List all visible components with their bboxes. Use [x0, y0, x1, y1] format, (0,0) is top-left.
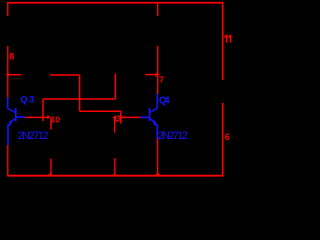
svg-text:2N2712: 2N2712 — [158, 130, 188, 142]
wire left vertical node 8 — [7, 46, 9, 98]
junction node 7 arrow — [156, 72, 160, 77]
wire vertical stub x120.7 — [120, 111, 122, 123]
wire Q4 emitter down — [157, 138, 159, 176]
wire Q3 base horizontal node 10 — [25, 116, 48, 118]
wire node13 stub down — [114, 118, 116, 133]
wire bottom stub x114.6 — [114, 158, 116, 176]
wire Q4 base horizontal node 13 — [121, 116, 140, 118]
wire top rail node 11 — [7, 2, 223, 4]
wire node10 stub down — [50, 118, 52, 130]
transistor Q3 emitter arrow — [7, 121, 13, 126]
junction node 10 arrow — [47, 115, 50, 119]
wire mid horizontal segment y75 — [50, 74, 80, 76]
svg-text:6: 6 — [225, 132, 230, 142]
svg-text:7: 7 — [159, 75, 164, 85]
wire left top stub — [7, 2, 9, 16]
svg-text:2N2712: 2N2712 — [18, 130, 49, 142]
svg-text:10: 10 — [51, 114, 61, 124]
wire vertical x115 — [114, 74, 116, 100]
wire bottom rail — [7, 175, 223, 177]
svg-text:Q3: Q3 — [20, 94, 34, 105]
svg-text:13: 13 — [113, 114, 121, 123]
wire cross horizontal y99 — [43, 98, 115, 100]
node label 11 — [224, 35, 231, 43]
wire node8 horizontal left segment — [6, 74, 21, 76]
junction bottom x51 — [47, 172, 51, 175]
wire vertical x79.5 — [79, 75, 81, 111]
junction bottom x157.5 — [154, 172, 161, 175]
wire Q3 emitter down — [7, 145, 9, 176]
junction bottom x114.6 — [112, 173, 115, 176]
svg-text:8: 8 — [9, 51, 14, 61]
junction node 8 — [6, 73, 9, 77]
wire vertical x157.5 node 7 — [157, 46, 159, 94]
wire horizontal y110.8 — [80, 110, 121, 112]
transistor Q4 emitter arrow — [153, 121, 159, 126]
wire right vertical top node 11 — [222, 2, 224, 80]
junction node 13 arrow — [112, 115, 115, 119]
transistor Q3 — [8, 98, 25, 146]
wire right vertical bottom node 6 — [222, 103, 224, 176]
svg-text:Q4: Q4 — [159, 95, 170, 106]
transistor Q4 — [140, 94, 157, 139]
wire top stub x157.5 — [157, 2, 159, 16]
wire vertical x43 to base — [42, 99, 44, 121]
wire node7 horizontal — [145, 74, 158, 76]
wire resistor bottom stub x51 — [50, 159, 52, 176]
